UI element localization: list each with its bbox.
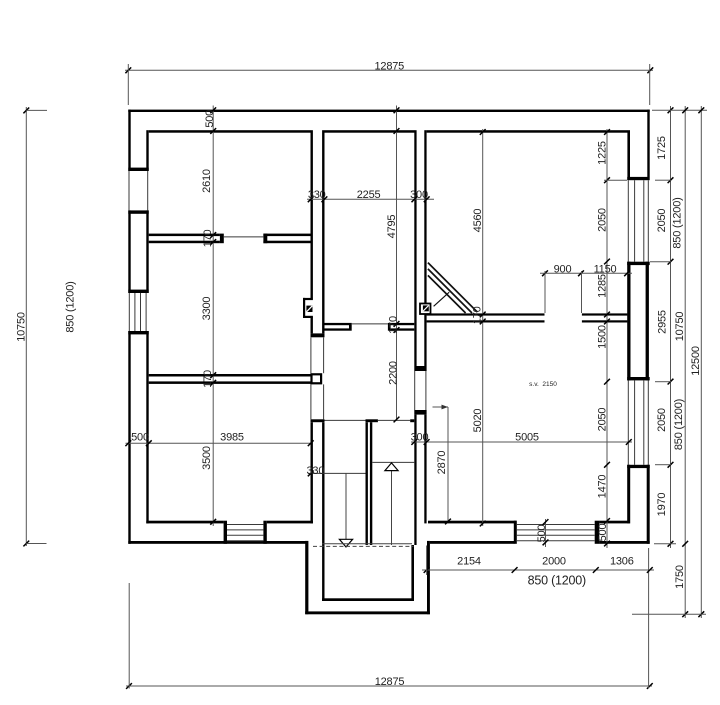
svg-text:500: 500 bbox=[131, 432, 149, 444]
svg-text:3500: 3500 bbox=[201, 446, 213, 470]
svg-text:500: 500 bbox=[536, 525, 548, 543]
svg-text:1970: 1970 bbox=[656, 493, 668, 517]
svg-text:2870: 2870 bbox=[436, 451, 448, 475]
svg-text:1750: 1750 bbox=[674, 565, 686, 589]
svg-text:850 (1200): 850 (1200) bbox=[64, 281, 76, 332]
svg-text:2050: 2050 bbox=[596, 408, 608, 432]
svg-text:1150: 1150 bbox=[594, 264, 617, 276]
svg-text:1225: 1225 bbox=[596, 141, 608, 165]
svg-text:3300: 3300 bbox=[201, 297, 213, 321]
svg-text:1285: 1285 bbox=[596, 274, 608, 298]
svg-text:170: 170 bbox=[202, 370, 214, 388]
svg-text:500: 500 bbox=[597, 524, 609, 542]
svg-text:s.v. 2150: s.v. 2150 bbox=[529, 381, 557, 388]
svg-text:2154: 2154 bbox=[457, 555, 481, 567]
svg-text:5020: 5020 bbox=[472, 409, 484, 433]
svg-text:12500: 12500 bbox=[690, 346, 702, 376]
svg-text:2050: 2050 bbox=[656, 209, 668, 233]
svg-text:10750: 10750 bbox=[15, 312, 27, 342]
svg-text:850 (1200): 850 (1200) bbox=[671, 197, 683, 248]
svg-text:10750: 10750 bbox=[674, 312, 686, 342]
svg-text:300: 300 bbox=[411, 432, 429, 444]
svg-text:1500: 1500 bbox=[596, 325, 608, 349]
svg-text:170: 170 bbox=[471, 306, 483, 324]
svg-text:170: 170 bbox=[202, 229, 214, 247]
svg-text:2000: 2000 bbox=[542, 555, 566, 567]
svg-text:4560: 4560 bbox=[472, 209, 484, 233]
svg-text:1306: 1306 bbox=[610, 555, 634, 567]
svg-text:2050: 2050 bbox=[656, 408, 668, 432]
svg-text:330: 330 bbox=[307, 465, 325, 477]
svg-text:12875: 12875 bbox=[375, 676, 405, 688]
svg-text:850 (1200): 850 (1200) bbox=[528, 574, 586, 588]
svg-text:5005: 5005 bbox=[515, 432, 539, 444]
svg-text:4795: 4795 bbox=[386, 215, 398, 239]
svg-text:2050: 2050 bbox=[596, 208, 608, 232]
svg-text:12875: 12875 bbox=[375, 60, 405, 72]
svg-text:2255: 2255 bbox=[357, 189, 381, 201]
svg-text:850 (1200): 850 (1200) bbox=[673, 399, 685, 450]
svg-text:1470: 1470 bbox=[596, 475, 608, 499]
svg-text:2955: 2955 bbox=[656, 310, 668, 334]
svg-text:170: 170 bbox=[388, 316, 400, 334]
svg-text:1725: 1725 bbox=[656, 136, 668, 160]
svg-text:500: 500 bbox=[204, 110, 216, 128]
svg-text:900: 900 bbox=[554, 264, 572, 276]
svg-text:330: 330 bbox=[308, 189, 326, 201]
svg-text:2200: 2200 bbox=[387, 361, 399, 385]
svg-text:3985: 3985 bbox=[220, 432, 244, 444]
svg-text:2610: 2610 bbox=[201, 169, 213, 193]
svg-text:300: 300 bbox=[410, 189, 428, 201]
